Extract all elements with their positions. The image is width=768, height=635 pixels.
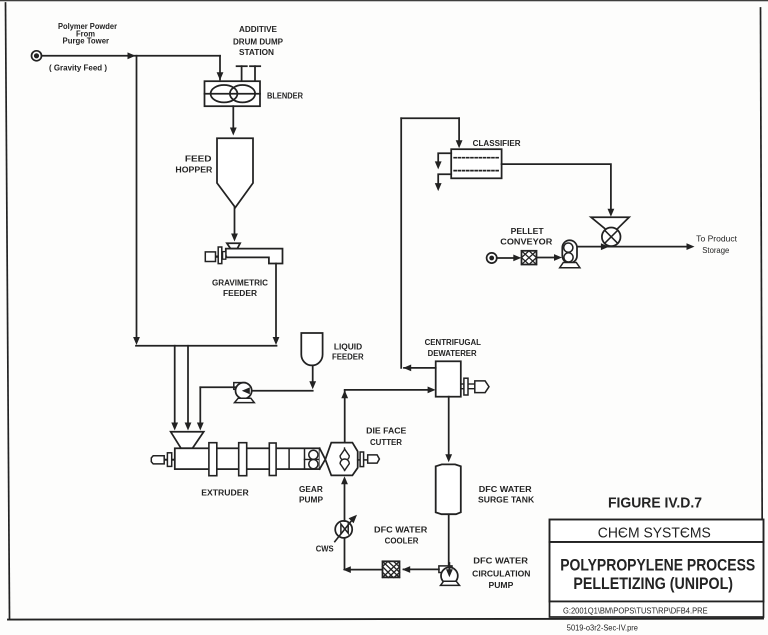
wire: conveyor line 2: [537, 257, 556, 259]
rotary valve vane 1: [605, 230, 618, 243]
arrow CWS vent (45deg): [349, 515, 357, 523]
svg-text:5019-o3r2-Sec-IV.pre: 5019-o3r2-Sec-IV.pre: [567, 624, 639, 633]
wire: hopper to gravimetric feeder: [234, 208, 236, 235]
gravimetric feeder motor: [205, 252, 215, 262]
dewaterer coupling bar: [464, 378, 468, 395]
svg-text:CONVEYOR: CONVEYOR: [500, 238, 552, 247]
svg-text:PELLET: PELLET: [511, 227, 544, 236]
wire: liquid feeder drop: [312, 366, 314, 384]
exchanger box hatch: [383, 567, 394, 578]
extruder feed funnel: [171, 432, 204, 449]
svg-text:EXTRUDER: EXTRUDER: [201, 488, 249, 497]
pellet blower lobe top: [564, 243, 573, 252]
svg-text:STATION: STATION: [239, 48, 274, 57]
gravimetric feeder body: [226, 249, 283, 264]
title block box: file path: [550, 602, 764, 618]
svg-text:( Gravity Feed ): ( Gravity Feed ): [49, 64, 107, 73]
extruder barrel divider 2 (gear pump box): [304, 448, 306, 469]
svg-text:FEED: FEED: [185, 154, 212, 163]
pump P1 casing tab: [234, 383, 245, 390]
gravimetric feeder inlet funnel: [227, 243, 240, 248]
arrow onto collector line (right): [273, 337, 280, 345]
drum dump drum 2: [254, 66, 256, 81]
pellet blower base: [560, 263, 580, 268]
wire: cooler to die face cutter: [344, 485, 346, 522]
wire: pellet transfer line: [577, 246, 688, 248]
dewaterer shaft lines: [461, 383, 475, 385]
arrow on polymer feed line: [128, 52, 136, 59]
arrow into extruder funnel 1: [171, 423, 178, 431]
wire: polymer powder feed horizontal: [42, 55, 221, 57]
pellet funnel: [591, 217, 629, 228]
svg-text:POLYPROPYLENE PROCESS: POLYPROPYLENE PROCESS: [560, 556, 755, 575]
svg-text:CWS: CWS: [316, 545, 335, 554]
svg-text:HOPPER: HOPPER: [175, 165, 212, 174]
classifier body: [451, 149, 501, 178]
arrow onto collector line (left): [133, 337, 140, 345]
svg-text:ADDITIVE: ADDITIVE: [239, 25, 278, 34]
wire: blender to feed hopper: [232, 106, 234, 128]
wire: cutter to dewaterer horizontal: [345, 389, 429, 391]
rotary valve vane 2: [605, 230, 618, 243]
blender agitator right lobe: [230, 85, 255, 102]
node: polymer powder source (bullseye): [32, 51, 42, 61]
extruder flange 2: [239, 443, 247, 476]
wire: classifier accept line: [502, 164, 611, 210]
arrow into extruder funnel 2: [185, 423, 192, 431]
wire: pump suction line: [250, 390, 313, 392]
extruder motor: [151, 456, 164, 464]
wire: collector header line: [136, 345, 277, 347]
circulation pump base: [441, 581, 460, 585]
pellet blower lobe bottom: [564, 253, 573, 262]
wire: conveyor line 1: [497, 257, 515, 259]
arrow left at riser junction: [403, 365, 411, 372]
svg-text:CHЄM SYSTЄMS: CHЄM SYSTЄMS: [598, 526, 711, 542]
arrow into pump P1: [242, 387, 250, 394]
cutter motor: [368, 455, 380, 463]
wire: dewaterer overhead out: [404, 367, 436, 369]
svg-text:SURGE TANK: SURGE TANK: [478, 496, 534, 505]
pellet blower casing: [562, 240, 577, 263]
extruder flange 1: [209, 443, 217, 476]
blender body: [205, 81, 261, 106]
svg-text:DFC WATER: DFC WATER: [479, 485, 532, 494]
arrow on transfer line below valve: [601, 243, 609, 250]
cutter blade bottom: [340, 459, 349, 470]
DFC water surge tank: [436, 464, 461, 514]
svg-text:GEAR: GEAR: [299, 485, 323, 494]
CWS cooler flow diagonal: [335, 519, 353, 541]
wire: classifier reject 1: [438, 153, 451, 162]
svg-text:Purge Tower: Purge Tower: [63, 37, 110, 46]
svg-text:GRAVIMETRIC: GRAVIMETRIC: [212, 279, 268, 288]
svg-text:Storage: Storage: [702, 246, 730, 255]
arrow reject 2 down: [435, 183, 442, 191]
wire: pump discharge to cooler: [404, 568, 439, 570]
cutter blade top: [340, 449, 349, 460]
gear pump rotor top: [309, 450, 318, 459]
arrow into blower: [554, 254, 562, 261]
wire: classifier feed drop: [458, 118, 460, 141]
svg-text:FEEDER: FEEDER: [223, 289, 257, 298]
svg-text:DIE FACE: DIE FACE: [366, 426, 407, 435]
dewaterer motor: [475, 381, 489, 393]
svg-text:DRUM DUMP: DRUM DUMP: [233, 38, 284, 47]
arrow into classifier: [456, 140, 463, 148]
classifier screen 2: [454, 170, 499, 172]
svg-text:CENTRIFUGAL: CENTRIFUGAL: [425, 338, 482, 347]
gravimetric feeder drive shaft: [210, 256, 226, 258]
arrow into die face cutter bottom: [341, 476, 348, 484]
wire: feed drop to blender: [219, 56, 221, 80]
die face cutter transition: [320, 448, 326, 469]
wire: pump inlet overlay: [448, 563, 450, 572]
frame left border: [6, 3, 10, 619]
svg-text:CIRCULATION: CIRCULATION: [472, 569, 531, 578]
arrow into gravimetric feeder: [231, 234, 238, 242]
svg-text:PUMP: PUMP: [489, 581, 514, 590]
wire: extruder feed drop 1: [174, 346, 176, 424]
arrow liquid feeder onto pump suction line: [309, 381, 316, 389]
CWS cooler circle: [335, 521, 352, 538]
arrow up at cutter riser corner: [341, 390, 348, 398]
frame top edge (faint): [0, 0, 768, 2]
blender agitator left lobe: [211, 85, 238, 102]
liquid feeder vessel: [301, 333, 322, 365]
extruder drive shaft: [163, 459, 176, 461]
centrifugal dewaterer body: [436, 361, 461, 396]
svg-text:To Product: To Product: [696, 234, 738, 243]
arrow into conveyor box: [513, 255, 521, 262]
arrow into blender: [217, 72, 224, 80]
svg-text:DFC WATER: DFC WATER: [473, 557, 528, 566]
svg-text:PUMP: PUMP: [299, 496, 324, 505]
extruder flange 3: [269, 443, 276, 476]
svg-text:PELLETIZING (UNIPOL): PELLETIZING (UNIPOL): [573, 574, 733, 593]
title block box: title: [550, 542, 764, 602]
svg-text:CUTTER: CUTTER: [370, 438, 402, 447]
arrow reject 1 down: [435, 161, 442, 169]
wire: exchanger to cooler riser: [346, 569, 383, 571]
cutter coupling bar: [360, 452, 364, 467]
conveyor box (screened): [522, 251, 537, 265]
svg-text:FIGURE IV.D.7: FIGURE IV.D.7: [608, 495, 702, 512]
gear pump rotor bottom: [309, 460, 318, 469]
circulation pump casing tab: [439, 566, 452, 573]
gravimetric feeder coupling bar: [218, 247, 222, 264]
extruder coupling bar: [167, 453, 171, 467]
wire: classifier reject 2: [438, 174, 451, 184]
wire: surge tank to pump: [448, 515, 450, 570]
pump P1 body: [236, 383, 252, 399]
frame bottom border: [8, 619, 763, 620]
arrow into surge tank: [445, 454, 452, 462]
arrow into exchanger box: [402, 566, 410, 573]
svg-text:BLENDER: BLENDER: [267, 92, 303, 101]
arrow into feed hopper: [230, 128, 237, 136]
wire: polymer feed branch down left side: [136, 56, 138, 339]
wire: cutter top riser: [344, 391, 346, 443]
extruder barrel divider 1: [288, 448, 290, 469]
wire: riser to CWS cooler: [344, 537, 346, 569]
svg-text:CLASSIFIER: CLASSIFIER: [473, 139, 521, 148]
svg-text:COOLER: COOLER: [385, 536, 419, 545]
wire: pump P1 discharge: [200, 386, 235, 388]
arrow to product storage: [687, 243, 695, 250]
wire: classifier feed top run: [401, 117, 459, 119]
wire: pump discharge drop to extruder: [199, 387, 201, 423]
svg-text:DFC WATER: DFC WATER: [374, 526, 428, 535]
rotary valve: [602, 228, 621, 247]
wire: dewaterer bottoms drop: [448, 397, 450, 456]
extruder barrel: [175, 448, 320, 469]
classifier screen 1: [454, 157, 499, 159]
frame right border: [761, 8, 763, 618]
svg-text:DEWATERER: DEWATERER: [428, 349, 477, 358]
arrow into extruder funnel 3: [197, 423, 204, 431]
wire: riser to classifier: [400, 118, 402, 368]
gravimetric feeder small coupling: [223, 252, 226, 260]
CWS cooler coil N: [341, 524, 348, 533]
feed hopper: [217, 138, 253, 207]
svg-text:G:2001Q1\BM\POPS\TUST\RP\DFB4.: G:2001Q1\BM\POPS\TUST\RP\DFB4.PRE: [563, 606, 708, 616]
svg-text:FEEDER: FEEDER: [332, 352, 364, 361]
circulation pump body: [441, 567, 458, 584]
svg-text:LIQUID: LIQUID: [334, 342, 363, 351]
wire: extruder feed drop 2: [187, 346, 189, 424]
arrow left at cooler riser corner: [343, 566, 351, 573]
pump P1 base: [235, 398, 255, 402]
arrow into circulation pump: [446, 569, 453, 577]
title block box: CHEM SYSTEMS: [550, 520, 764, 543]
conveyor box hatch: [522, 251, 537, 265]
blender centerline: [205, 93, 261, 95]
arrow into pellet funnel: [608, 209, 615, 217]
wire: gravimetric feeder outlet drop: [275, 264, 277, 339]
cutter shaft line: [358, 459, 368, 461]
node: pellet conveyor source (bullseye): [487, 253, 497, 263]
die face cutter centerline: [344, 448, 346, 471]
die face cutter body (octagon): [325, 443, 357, 476]
drum dump drum 1: [241, 66, 243, 81]
arrow into dewaterer: [428, 387, 436, 394]
exchanger box: [383, 561, 400, 577]
extruder barrel centerline (gear pump side): [305, 458, 327, 460]
